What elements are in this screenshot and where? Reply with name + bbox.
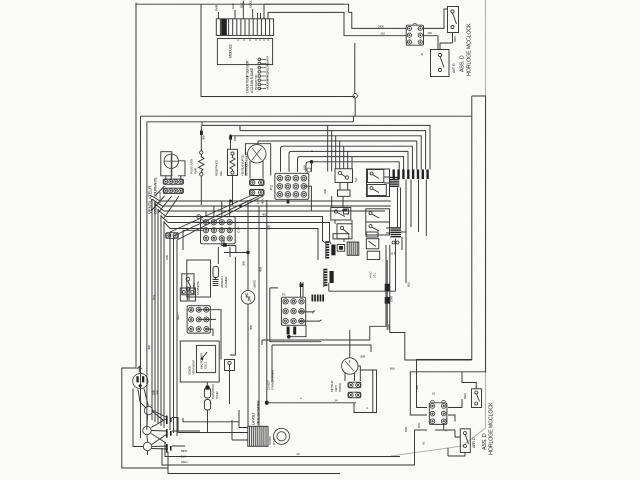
- svg-text:40B: 40B: [156, 390, 160, 395]
- svg-text:GRN: GRN: [387, 324, 391, 330]
- svg-text:BLK: BLK: [404, 427, 408, 432]
- bottom rail 1: [165, 443, 400, 457]
- connector row M2b: [250, 190, 265, 196]
- wires: step frame into J1: [410, 393, 427, 416]
- wire: J2 right J-10: [424, 36, 438, 50]
- svg-text:MODULE: MODULE: [229, 44, 233, 58]
- bottom rail 3: [168, 452, 340, 474]
- terminal T2 circle: [143, 426, 151, 434]
- wires relays to combs: [332, 183, 352, 243]
- comb connector C1 (dark teeth): [326, 241, 329, 243]
- page fold shadow line: [391, 0, 486, 456]
- empty box SB1: [367, 251, 380, 259]
- wires into P-1 from top: [206, 201, 230, 217]
- bundle crimp ticks: [166, 416, 168, 421]
- svg-text:BLK: BLK: [239, 3, 243, 8]
- P-2 latch hook top right: [307, 168, 311, 172]
- svg-text:MODL: MODL: [249, 0, 253, 8]
- connector row M2a: [250, 180, 265, 186]
- motor VENT circle: [342, 358, 358, 374]
- svg-text:RESISTANCE: RESISTANCE: [215, 160, 219, 176]
- wire J1 right to SW3: [448, 399, 462, 422]
- wire bus: horizontal harness band: [202, 125, 430, 169]
- inner box MAJ POWER: [197, 345, 216, 372]
- svg-text:40B: 40B: [261, 199, 265, 204]
- svg-text:BLK: BLK: [152, 295, 156, 300]
- svg-text:LA VOLT: LA VOLT: [252, 412, 256, 425]
- main enclosure outer: top edge y=116: [141, 116, 472, 392]
- wire: left bundle bends into mid bundle: [150, 195, 170, 229]
- plug cable stub: [137, 366, 142, 372]
- wire: right vertical x=395.5 with bottom rail: [329, 239, 396, 292]
- small relay box with 2 circles: [182, 274, 194, 295]
- wires into P3 top: [301, 282, 304, 298]
- wire: vertical right of COMB cluster: [218, 247, 235, 355]
- switch box D0 outer: [367, 169, 390, 197]
- svg-text:TRANSFORMER: TRANSFORMER: [257, 400, 261, 425]
- svg-text:31B: 31B: [323, 189, 327, 194]
- capacitor C-FOUR cylinder: [204, 388, 210, 399]
- wire: GRN vertical with crimp blocks: [385, 284, 390, 292]
- wires: fan box to rows: [166, 176, 181, 179]
- black comb connector CM1: [390, 177, 400, 178]
- svg-text:ORG: ORG: [266, 62, 270, 69]
- wires motor to connector: [345, 366, 360, 381]
- motor LIMITE circle: [241, 291, 255, 305]
- connector row CN1b (4 circles): [163, 188, 183, 193]
- box COMB ATT with label: [187, 260, 211, 297]
- wire: top horizontal line: [136, 3, 344, 5]
- transformer coil box: [248, 426, 268, 446]
- node: module enclosure to J2 drop: [353, 94, 357, 98]
- module tick marks on box top: [238, 39, 268, 42]
- switch box SB0 with diagonal: [366, 239, 379, 249]
- switch SW3 box: [472, 389, 482, 408]
- switch SW4 box: [460, 429, 470, 453]
- svg-text:DEL: DEL: [219, 170, 223, 176]
- svg-text:30 B: 30 B: [360, 355, 365, 359]
- wire W1: 240V feed to J2: [264, 4, 406, 28]
- svg-text:30B: 30B: [242, 261, 246, 266]
- wire: vertical from J2 feed down to main box: [354, 43, 356, 122]
- relay RL3 box: [337, 224, 352, 239]
- motor M2 enclosure box: [245, 144, 270, 176]
- module assembly enclosure box: [201, 4, 355, 96]
- wires from mid bundle into combs: [323, 241, 332, 244]
- connector CN3 (3x3 grid): [187, 306, 210, 333]
- small box next to C1: [337, 245, 345, 252]
- switch SW2 (lower relay): [431, 50, 450, 77]
- wire: P-1 to 40B junction and down to limit motor: [224, 200, 248, 290]
- connector row CN2 (2 circles): [166, 233, 179, 239]
- wire P-2 row2 exit right and down: [288, 186, 311, 211]
- bottom rail 2: [162, 448, 415, 465]
- svg-text:40B: 40B: [202, 135, 206, 140]
- mains plug receptacle circle: [133, 373, 148, 388]
- box pair top (thermostat): [333, 234, 349, 239]
- wires CN3 rows to right: [199, 310, 221, 341]
- wire SW3 top hook: [462, 372, 476, 389]
- main enclosure second line from node to right: [410, 96, 485, 399]
- wire M2 top to bus: [202, 122, 258, 144]
- wire motor top to step frame: [349, 330, 351, 358]
- svg-text:VERA WOW: VERA WOW: [192, 360, 196, 375]
- svg-text:C-1-A: C-1-A: [237, 226, 241, 233]
- svg-text:ASS. D: ASS. D: [482, 433, 488, 450]
- svg-text:J-10: J-10: [415, 385, 419, 390]
- wire SONDE box bottom to capacitor: [206, 382, 208, 387]
- svg-text:BRN: BRN: [453, 36, 457, 42]
- wire: plug side drop to terminal 3: [133, 389, 143, 447]
- wire: left outer frame vertical with detour: [122, 3, 168, 469]
- junction blob under P-1: [223, 243, 227, 247]
- wires right of CM2 bending: [401, 231, 406, 233]
- svg-text:ARR. D: ARR. D: [472, 437, 476, 448]
- connector row CN1a (4 circles): [163, 179, 183, 184]
- terminal T1 circle: [144, 406, 152, 414]
- svg-text:10B: 10B: [165, 255, 169, 260]
- wire: 45B long vertical to transformer: [258, 206, 260, 426]
- module body box: [217, 39, 272, 65]
- wire fan right hook: [178, 161, 185, 176]
- junction dots on mid bundle: [229, 200, 232, 203]
- svg-text:J-10: J-10: [380, 32, 385, 36]
- relay RL2 box: [331, 208, 351, 221]
- svg-text:M-1: M-1: [354, 177, 358, 182]
- capacitor cylinder small: [213, 266, 218, 277]
- svg-text:GRY: GRY: [266, 80, 270, 86]
- switch box D0a: [368, 170, 384, 183]
- connector J2 (2x3 circles): [406, 25, 423, 45]
- module ribbon filled stripe: [221, 19, 227, 36]
- wire capacitor bottom down: [207, 410, 209, 433]
- svg-text:J-1 B: J-1 B: [390, 252, 396, 256]
- wires: fan rows down-fan diagonals: [152, 186, 263, 240]
- wire R1 top to bus: [200, 125, 202, 150]
- wires plug to terminal 1: [138, 389, 149, 409]
- svg-text:240V: 240V: [378, 24, 384, 28]
- vent motor enclosure box: [354, 370, 377, 413]
- svg-text:FAJ PORTE: FAJ PORTE: [196, 281, 200, 295]
- svg-text:FOUR: FOUR: [215, 391, 219, 399]
- wire LIMITE bottom down to transformer: [247, 304, 249, 426]
- wire P-1 bottom out: [222, 238, 236, 245]
- wire P-1 left row2: [183, 230, 203, 250]
- dark block right of C1: [331, 245, 335, 256]
- junction node on bus: [310, 160, 314, 164]
- connector P-2 (4x3 grid): [275, 173, 309, 199]
- module ribbon connector striped block: [216, 19, 273, 36]
- wires into transformer left: [178, 410, 248, 440]
- main enclosure inner top y=121.8: [147, 122, 354, 300]
- wire bundle: left verticals down to terminals: [141, 199, 178, 438]
- frame step line B (outer): [390, 245, 472, 360]
- two small circles top right: [392, 241, 395, 244]
- svg-text:ASS. D: ASS. D: [460, 55, 466, 72]
- svg-text:45B: 45B: [249, 325, 253, 330]
- J1 latch hooks: [431, 400, 446, 402]
- small box RL1b: [338, 190, 351, 196]
- svg-text:OLE 3: OLE 3: [204, 361, 208, 369]
- wire bundle: mid horizontals: [160, 201, 391, 260]
- svg-text:J-10: J-10: [427, 31, 432, 35]
- P3 outer box: [270, 288, 321, 342]
- wire: rail2 corner up to J1 area: [415, 430, 428, 465]
- svg-text:BLU: BLU: [407, 282, 411, 287]
- wire into P-1 row1 from left: [190, 221, 203, 223]
- wire P3 row3 right arrow long: [289, 320, 322, 337]
- resistor R1 vertical zigzag: [200, 151, 203, 154]
- switch SW1 (top right door switch): [448, 7, 459, 33]
- wire terminal spine: [146, 415, 149, 455]
- connector J1 (2x3): [429, 403, 447, 425]
- terminal T3 circle: [143, 442, 151, 450]
- wire R1 bottom down: [200, 176, 202, 205]
- svg-text:PORTE: PORTE: [338, 383, 342, 392]
- svg-text:P-2: P-2: [270, 185, 274, 190]
- fan motor M1 box: [161, 152, 172, 176]
- wire drops into P-2 columns (rounded bends): [281, 146, 309, 172]
- resistor R2 box: [228, 149, 238, 175]
- svg-text:45B: 45B: [259, 267, 263, 272]
- svg-text:M-0: M-0: [303, 165, 307, 170]
- switch box D0b: [367, 185, 386, 196]
- fan motor M1 circle: [164, 154, 178, 168]
- frame bottom inner line y=345: [272, 345, 371, 382]
- svg-text:3 1-1: 3 1-1: [373, 272, 377, 278]
- wire R2 bottom down: [232, 176, 234, 206]
- svg-text:40B: 40B: [147, 345, 151, 350]
- black comb connector CM2 (lower): [391, 227, 402, 228]
- box SONDE assembly: [180, 341, 219, 382]
- vent motor connector 2x2: [348, 382, 361, 388]
- connector P-1 (4x3 grid): [201, 217, 236, 244]
- wire SW4 bottom: [448, 448, 465, 456]
- wires from bundle right (RED/BLK/GRN rails): [172, 418, 200, 447]
- svg-text:BLK: BLK: [417, 423, 421, 428]
- wire: J2 to door switch SW1: [424, 9, 448, 28]
- P-1 latch circle: [197, 215, 201, 219]
- wires M2 sides down to connector: [250, 161, 263, 179]
- wire R2 top to bus: [230, 134, 232, 149]
- svg-text:AVT. G: AVT. G: [452, 63, 456, 73]
- wire middle drops to relay cluster: [328, 125, 348, 171]
- frame step line A (inner): [262, 245, 386, 345]
- ribbon connector RB (vertical lines): [347, 242, 359, 255]
- svg-text:V-LAMER: V-LAMER: [224, 276, 228, 288]
- connector P3 (3x3): [281, 297, 305, 325]
- wire node right to vent motor box: [267, 402, 356, 404]
- module terminal column (8 rows circle-dash): [258, 58, 261, 61]
- wire long vertical x=266.8 down to node: [266, 200, 268, 403]
- relay RL1 box with circles: [335, 169, 353, 183]
- wire J1 bottom to SW4: [435, 424, 460, 437]
- wire P3 row2 right arrow: [298, 311, 315, 314]
- black crimp pins below P3: [287, 327, 290, 335]
- wire upper transformer feed: [183, 418, 239, 422]
- svg-text:BRN: BRN: [233, 135, 237, 141]
- svg-text:P24: P24: [266, 56, 270, 61]
- svg-text:HORLOGE MCCLOCK: HORLOGE MCCLOCK: [467, 23, 473, 76]
- comb connector C2 (dark teeth): [324, 269, 328, 271]
- svg-text:TRANSFORMER: TRANSFORMER: [271, 369, 275, 390]
- wires from pin row down: [398, 180, 427, 284]
- node at transformer feed: [265, 401, 269, 405]
- wires: module top stubs: [218, 1, 260, 19]
- J2 latch hook: [413, 23, 417, 25]
- svg-text:GR N: GR N: [181, 460, 187, 464]
- pin row P4 (black bars): [393, 170, 395, 180]
- stacked-plate symbol: [213, 278, 219, 286]
- svg-text:BLK: BLK: [390, 367, 395, 371]
- two small boxes top of lower cluster: [180, 288, 187, 301]
- svg-text:10B: 10B: [256, 199, 260, 204]
- svg-text:31B: 31B: [267, 225, 271, 230]
- motor M2 circle: [248, 145, 266, 163]
- wire W2: second feed to J2: [268, 12, 406, 35]
- svg-text:P24 GRY VIO: P24 GRY VIO: [254, 74, 258, 90]
- black connector row right of P3: [312, 295, 314, 302]
- terminal fan-out wires to bundle: [151, 411, 168, 450]
- resistor R2 zigzag: [231, 152, 234, 155]
- wire: SW1 bottom to SW2: [440, 33, 453, 50]
- double switch box D1 (y=208..235): [366, 209, 390, 235]
- transformer toroid circle: [274, 428, 290, 444]
- svg-text:LIMITE: LIMITE: [253, 280, 257, 288]
- junction box JB: [225, 360, 235, 371]
- svg-text:OVEN TEMP SENSOR: OVEN TEMP SENSOR: [246, 60, 250, 93]
- svg-text:HORLOGE MCCLOCK: HORLOGE MCCLOCK: [489, 402, 495, 455]
